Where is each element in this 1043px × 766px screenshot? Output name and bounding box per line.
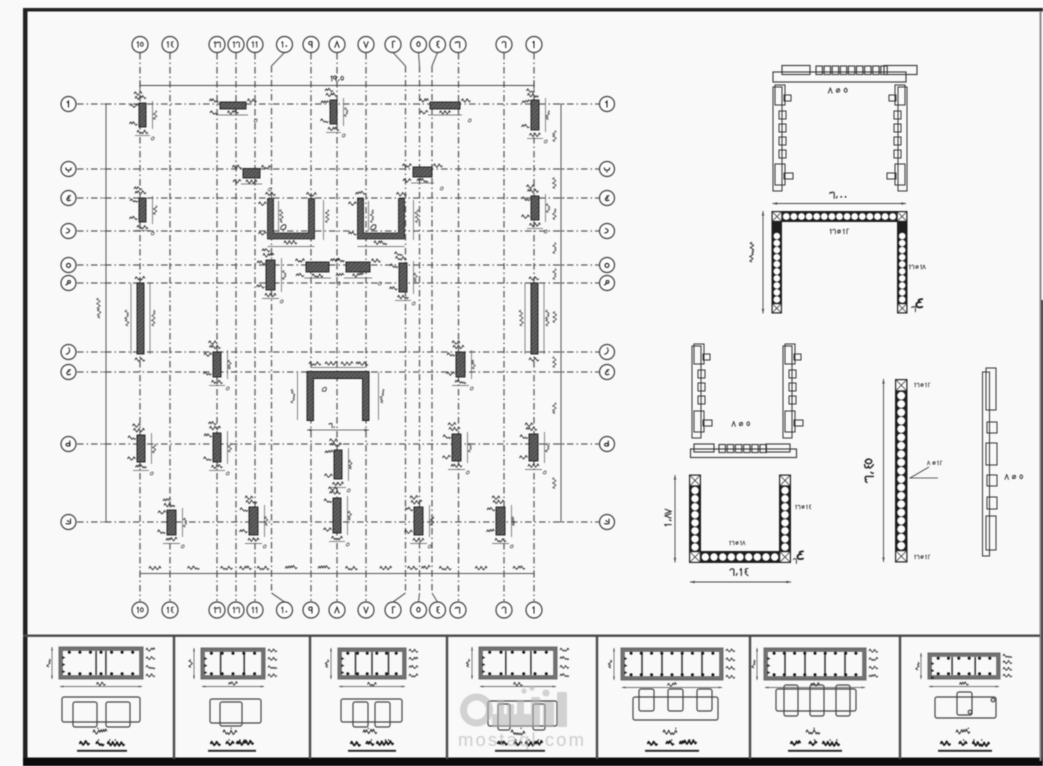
bottom dimension line [140,565,534,577]
panel P6 lower plan [776,685,856,716]
column C5 [522,89,550,143]
gridline V9 [303,37,319,619]
detail D1 dim 3,00 [773,192,907,205]
gridline V13 [209,37,225,619]
gridline H-w [61,276,615,291]
panel P6 caption [788,728,842,751]
gridline V10 [272,37,293,619]
column C3 [321,88,348,137]
shear wall W2 [519,277,549,361]
gridline V5 [411,37,427,619]
panel separator x=597 [596,635,598,759]
panel P1 caption [77,728,127,751]
shear wall W1 [125,276,155,361]
column C8 [130,187,158,235]
panel P6 section [752,648,878,688]
panel P7 section [916,653,1012,687]
gridline H-H [61,365,615,380]
watermark mostaql logo [460,685,567,727]
column C11 [296,258,341,285]
svg-text:mostaql.com: mostaql.com [458,729,584,750]
panel separator x=900 [899,635,901,759]
gridline V7 [358,37,374,619]
gridline H-a [61,97,615,112]
gridline V4 [430,37,446,619]
panel P5 lower plan [633,689,718,720]
detail D1 wall section H3 [750,211,926,314]
top dimension line 19.5 [140,76,534,91]
gridline V15 [132,37,148,619]
column C14 [204,341,232,390]
panel P7 lower plan [935,692,996,718]
column C6 [233,165,272,191]
detail D4 edge member elevation [983,368,1023,556]
right dimension line [552,104,564,522]
detail D2 left cage [692,344,712,438]
panel separator x=174 [173,635,175,759]
column C23 [324,487,352,546]
panel P4 caption [495,728,545,751]
column C17 [204,422,232,475]
column C19 [443,423,472,474]
gridline V14 [162,37,178,619]
gridline V8 [329,37,345,619]
column C1 [130,92,157,140]
core wall U1 (U open top) [259,192,329,246]
panel P3 caption [348,728,396,751]
column C10 [257,249,287,303]
gridline H-z [61,345,615,360]
column C22 [240,496,268,548]
panel separator x=750 [749,635,751,759]
panel P5 caption [645,728,699,751]
column C25 [487,496,515,548]
column C18 [325,439,353,492]
panel P5 section [608,648,735,688]
column C21 [158,498,187,548]
column C24 [405,495,435,547]
detail D2 phi label [732,422,750,427]
column C2 [210,99,258,122]
gridline H-d [61,224,615,239]
column C7 [403,164,444,190]
gridline H-b [61,162,615,177]
panel P3 lower plan [341,699,402,727]
column C9 [522,185,550,233]
panel P3 section [325,648,418,687]
gridline H-j [61,191,615,206]
panel P1 section [47,647,155,687]
detail D2 dims [665,475,791,583]
gridline H-t [61,437,615,452]
watermark overlay [460,685,567,727]
gridline V12 [228,37,244,619]
gridline V1 [526,37,542,619]
gridline H-h [61,258,615,273]
panel separator x=310 [309,635,311,759]
column C4 [420,99,472,122]
detail D2 right cage [783,344,803,438]
gridline H-k [61,515,615,530]
column C16 [128,424,157,475]
panel P7 caption [938,728,992,751]
detail D1 top bar assembly [773,66,917,94]
gridline V11 [247,37,263,619]
detail D1 right cage [887,85,907,191]
gridline V2 [496,37,512,619]
bottom strip top border [23,635,1040,637]
panel separator x=447 [446,635,448,759]
panel P2 section [189,648,277,687]
detail D2 wall section H2 [689,475,811,564]
panel P4 section [466,647,569,687]
detail D1 left cage [773,85,793,191]
gridline V3 [450,37,466,619]
detail D2 bottom bar assembly [691,444,797,458]
panel P1 lower plan [62,697,140,727]
core wall U2 (U open top) [349,191,419,246]
gridline V6 [385,37,406,619]
detail D3 tall wall section [865,379,942,563]
panel P2 lower plan [210,699,261,726]
column C13 [390,252,418,305]
column C20 [520,423,550,474]
column C15 [447,341,476,390]
panel P2 caption [208,728,256,751]
column C12 [336,258,382,285]
panel P4 lower plan [488,701,557,730]
left dimension line [97,104,110,522]
core wall U3 (open bottom) [291,362,384,432]
